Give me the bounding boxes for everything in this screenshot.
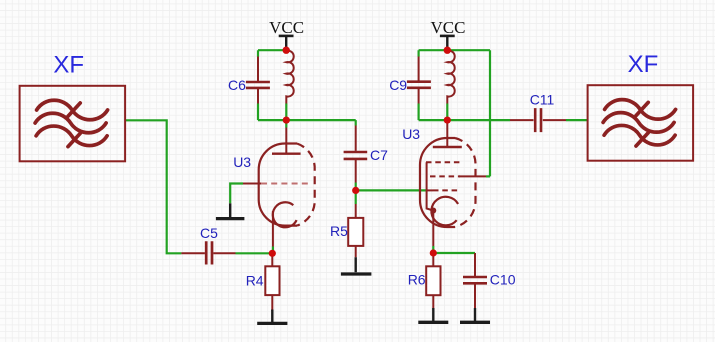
- svg-text:C9: C9: [389, 77, 407, 93]
- svg-text:XF: XF: [628, 51, 659, 78]
- svg-text:R6: R6: [408, 272, 426, 288]
- svg-text:R5: R5: [330, 223, 348, 239]
- svg-text:VCC: VCC: [431, 18, 466, 37]
- svg-text:U3: U3: [233, 154, 251, 170]
- svg-text:VCC: VCC: [269, 18, 304, 37]
- svg-text:C6: C6: [228, 77, 246, 93]
- svg-text:XF: XF: [53, 51, 84, 78]
- svg-text:C7: C7: [370, 147, 388, 163]
- svg-text:R4: R4: [246, 273, 264, 289]
- svg-text:C11: C11: [530, 92, 555, 108]
- svg-text:U3: U3: [402, 126, 420, 142]
- svg-text:C5: C5: [200, 225, 218, 241]
- svg-text:C10: C10: [490, 272, 516, 288]
